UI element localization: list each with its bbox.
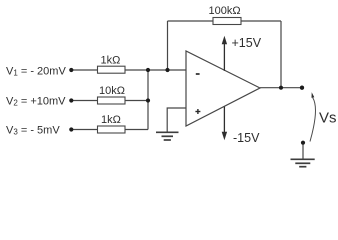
node junction R1/summing column	[146, 68, 150, 72]
wire feedback right drop	[280, 21, 282, 88]
wire feedback top run	[168, 20, 282, 22]
wire V1 input row	[72, 69, 187, 71]
svg-text:10kΩ: 10kΩ	[99, 85, 125, 97]
wire output	[260, 87, 302, 89]
svg-text:Vs: Vs	[319, 109, 337, 126]
measurement arc Vs	[310, 92, 315, 141]
op-amp U1 non-inverting pin mark	[195, 109, 200, 114]
resistor R1 1kohm (V1 branch)	[98, 66, 126, 73]
resistor Rf 100kohm (feedback)	[213, 18, 241, 25]
wire feedback left riser	[167, 21, 169, 70]
supply -15V arrow	[222, 107, 227, 141]
node feedback/output junction	[279, 86, 283, 90]
svg-text:1kΩ: 1kΩ	[101, 55, 121, 67]
ground (output reference)	[291, 159, 315, 166]
wire V3 input row	[72, 129, 149, 131]
node output terminal	[300, 86, 304, 90]
node V1 source terminal	[69, 68, 73, 72]
wire bottom terminal to ground	[302, 143, 304, 159]
svg-text:1kΩ: 1kΩ	[101, 114, 121, 126]
svg-text:V2 = +10mV: V2 = +10mV	[6, 96, 66, 108]
op-amp U1	[186, 51, 260, 126]
supply +15V arrow	[222, 36, 227, 71]
resistor R2 10kohm (V2 branch)	[98, 97, 126, 104]
svg-text:100kΩ: 100kΩ	[209, 5, 241, 17]
svg-text:+15V: +15V	[232, 36, 262, 50]
resistor R3 1kohm (V3 branch)	[98, 126, 126, 133]
wire summing junction column	[147, 70, 149, 130]
node junction R2/summing column	[146, 98, 150, 102]
svg-text:V3 = - 5mV: V3 = - 5mV	[6, 125, 60, 137]
node V3 source terminal	[69, 127, 73, 131]
node inverting input / feedback tap	[165, 68, 169, 72]
node V2 source terminal	[69, 98, 73, 102]
svg-text:V1 = - 20mV: V1 = - 20mV	[6, 65, 66, 77]
wire V2 input row	[72, 100, 149, 102]
svg-text:-15V: -15V	[233, 131, 260, 145]
wire non-inverting input to ground	[167, 108, 186, 132]
op-amp U1 inverting pin mark	[196, 73, 200, 75]
node ground-side terminal	[301, 141, 305, 145]
ground (non-inverting input)	[156, 132, 179, 140]
